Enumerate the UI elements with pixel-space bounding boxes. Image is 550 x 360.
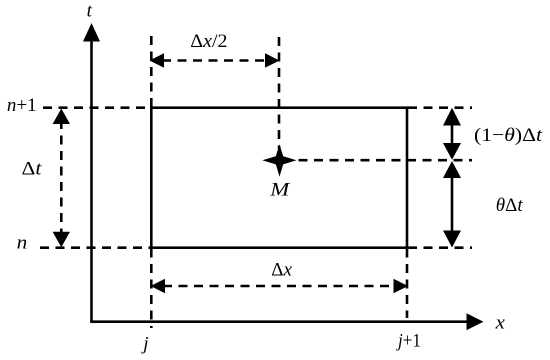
svg-text:n+1: n+1 xyxy=(7,95,37,116)
svg-text:θΔt: θΔt xyxy=(496,195,524,216)
svg-text:Δx/2: Δx/2 xyxy=(190,31,227,51)
svg-text:n: n xyxy=(17,232,28,253)
svg-text:x: x xyxy=(495,312,505,333)
svg-text:Δt: Δt xyxy=(22,158,43,179)
svg-text:t: t xyxy=(87,1,93,22)
svg-text:M: M xyxy=(269,178,291,200)
svg-text:j: j xyxy=(140,333,148,354)
svg-text:Δx: Δx xyxy=(271,260,292,281)
svg-text:(1−θ)Δt: (1−θ)Δt xyxy=(474,125,543,146)
svg-text:j+1: j+1 xyxy=(396,329,421,350)
